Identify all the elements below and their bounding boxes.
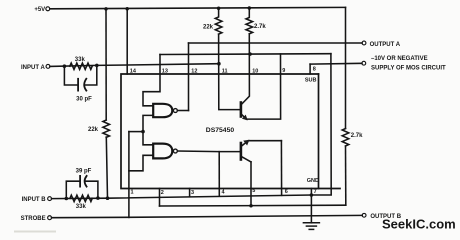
wire INPUT B / GND long line [52, 195, 312, 199]
transistor Q2 emitter arrow [243, 140, 249, 146]
svg-text:8: 8 [313, 67, 316, 73]
svg-text:11: 11 [222, 68, 228, 74]
capacitor C 30pF plate right curved [84, 79, 86, 91]
node rail-22kL junction [104, 7, 108, 11]
svg-text:–10V OR NEGATIVE: –10V OR NEGATIVE [371, 56, 428, 62]
+5V terminal [46, 7, 50, 11]
svg-text:30 pF: 30 pF [76, 97, 92, 103]
svg-text:3: 3 [191, 190, 194, 196]
wire +5V top rail [50, 7, 346, 8]
wire 39pF loop right [86, 181, 98, 198]
svg-text:SUB: SUB [305, 78, 317, 84]
wire pin4 riser [218, 152, 220, 197]
svg-text:2.7k: 2.7k [351, 133, 363, 139]
wire pin9 vertical to emitter A [246, 54, 280, 119]
transistor Q1 emitter diagonal [241, 114, 246, 119]
svg-text:9: 9 [282, 68, 285, 74]
wire 30pF loop left [64, 66, 78, 85]
wire OUTPUT A line [189, 42, 363, 44]
resistor R 22k left [103, 120, 110, 137]
transistor Q2 emitter diagonal up [241, 141, 281, 147]
terminal INPUT A [46, 64, 50, 68]
wire gate B output to pin4 riser and base B [177, 150, 241, 153]
node rail-2.7kT junction [248, 6, 252, 10]
wire gate B input 2 route [129, 155, 153, 171]
wire INPUT A line to pin 11 [50, 64, 219, 67]
wire 22kL top from rail [105, 9, 107, 120]
svg-text:STROBE: STROBE [21, 216, 46, 222]
svg-text:DS75450: DS75450 [206, 127, 235, 134]
wire 39pF loop left [66, 181, 80, 198]
svg-text:5: 5 [252, 188, 255, 194]
svg-text:14: 14 [130, 68, 137, 74]
svg-text:33k: 33k [76, 204, 87, 210]
svg-text:6: 6 [285, 189, 288, 195]
svg-text:SeekIC.com: SeekIC.com [382, 217, 456, 232]
svg-text:+5V: +5V [34, 7, 45, 13]
svg-text:INPUT A: INPUT A [21, 65, 45, 71]
svg-text:7: 7 [314, 189, 317, 195]
node rail-22kR junction [217, 6, 221, 10]
wire pin 14 from rail to IC [126, 9, 128, 74]
terminal STROBE [48, 216, 52, 220]
wire -10V line from pin8 [310, 62, 362, 65]
svg-text:SUPPLY OF MOS CIRCUIT: SUPPLY OF MOS CIRCUIT [371, 66, 446, 72]
wire 22kL bottom to input B line [106, 137, 107, 198]
svg-text:1: 1 [131, 190, 134, 196]
terminal -10V [362, 61, 366, 65]
wire pin3 stub [189, 189, 191, 197]
wire internal pin1 riser down to output B corner [128, 132, 130, 218]
wire pin5 drop to 205-line [250, 162, 252, 206]
IC SUB/GND column line [318, 74, 320, 189]
transistor Q1 emitter arrow [242, 115, 248, 121]
capacitor C 39pF plate right curved [85, 176, 87, 187]
wire dot to gate B input 1 [143, 132, 153, 145]
svg-text:2: 2 [161, 190, 164, 196]
wire 205-line (pin2 to pin5 to 2.7kR) [160, 204, 346, 207]
wire OUTPUT B line [129, 215, 362, 217]
nand gate U1B body [153, 144, 172, 159]
wire pin7 stub [310, 189, 312, 196]
resistor R 2.7k top [246, 8, 253, 34]
wire GND down [310, 195, 312, 223]
node rail-pin14 junction [125, 7, 129, 11]
svg-text:10: 10 [252, 68, 258, 74]
wire y54 line (pin13 pin10 pin9 to W) [160, 53, 331, 56]
scan artifact streak bottom left [14, 231, 56, 233]
wire 2.7k right bottom to 205-line [345, 146, 347, 205]
node pin7 GND junction [310, 193, 314, 197]
capacitor C 39pF plate left [79, 176, 81, 187]
terminal INPUT B [48, 197, 52, 201]
svg-text:OUTPUT A: OUTPUT A [370, 42, 401, 48]
wire internal dot to pin1 riser [129, 131, 143, 133]
wire pin6 drop from emitter B [280, 141, 282, 196]
nand gate U1A bubble [173, 109, 177, 113]
svg-text:GND: GND [307, 178, 319, 184]
wire +5V drop to right 2.7k [345, 7, 347, 128]
wire pin2 riser [159, 189, 161, 207]
resistor R 33k input A [70, 63, 92, 69]
svg-text:13: 13 [162, 68, 168, 74]
wire pin13 riser and route to gate A input [143, 55, 160, 106]
transistor Q1 base bar [240, 103, 243, 117]
node inputA cap-right junction [95, 64, 99, 68]
ground symbol [303, 223, 319, 230]
nand gate U1B bubble [173, 149, 177, 153]
IC outline DS75450 [121, 74, 340, 189]
node pin5-205line junction [249, 204, 253, 208]
svg-text:22k: 22k [88, 127, 99, 133]
wire STROBE line [52, 216, 129, 218]
svg-text:12: 12 [191, 68, 197, 74]
nand gate U1A body [153, 104, 172, 117]
wire pin10 vertical to collector A [241, 34, 249, 105]
wire gate A input 2 stub [143, 115, 153, 131]
resistor R 22k right [215, 8, 222, 34]
resistor R 2.7k right [342, 129, 349, 146]
wire 30pF loop right [85, 65, 97, 85]
node inputB cap-right junction [96, 196, 100, 200]
node inputA-pin11 junction [217, 62, 221, 66]
terminal OUTPUT A [362, 41, 366, 45]
node inputB cap-left junction [65, 197, 69, 201]
node inputA cap-left junction [63, 64, 67, 68]
resistor R 33k input B [70, 195, 92, 201]
node inputB 22kL junction [106, 196, 110, 200]
transistor Q2 base bar [240, 143, 243, 160]
wire pin8 stub [309, 64, 311, 74]
node internal junction dot [141, 130, 145, 134]
node y54line-pin10 junction [248, 52, 252, 56]
wire gate A output to pin12 riser [177, 110, 188, 112]
svg-text:22k: 22k [203, 24, 214, 30]
svg-text:39 pF: 39 pF [76, 169, 92, 175]
svg-text:33k: 33k [75, 57, 86, 63]
wire W right side (y54 line down to pin7 node) [311, 54, 331, 195]
wire pin12 riser (gate A output to OUTPUT A line) [188, 43, 190, 111]
transistor Q2 collector diagonal down [241, 156, 251, 162]
terminal OUTPUT B [362, 213, 366, 217]
capacitor C 30pF plate left [77, 79, 79, 91]
svg-text:2.7k: 2.7k [254, 24, 266, 30]
wire pin11 vertical 22kR to base A [219, 34, 241, 110]
svg-text:INPUT B: INPUT B [22, 197, 47, 203]
